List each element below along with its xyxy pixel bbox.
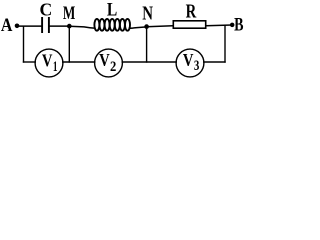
svg-text:C: C [40, 0, 53, 20]
svg-text:V: V [183, 50, 194, 71]
wire [146, 27, 148, 63]
wire [147, 26, 173, 27]
wire [68, 26, 70, 63]
wire [224, 25, 226, 62]
node A [1, 13, 19, 35]
svg-text:V: V [99, 49, 110, 70]
wire [122, 61, 178, 63]
node M [63, 2, 75, 29]
voltmeter V2 [95, 49, 123, 77]
svg-text:B: B [234, 13, 243, 35]
wire [17, 25, 42, 27]
wire [69, 26, 95, 28]
wire [23, 26, 25, 63]
svg-text:1: 1 [53, 58, 58, 75]
wire [203, 61, 226, 63]
wire [129, 27, 147, 28]
svg-text:V: V [42, 50, 53, 71]
node N [142, 2, 153, 29]
voltmeter V3 [176, 49, 204, 77]
node B [230, 13, 244, 35]
inductor L [94, 0, 130, 31]
svg-text:M: M [63, 2, 75, 24]
svg-text:R: R [186, 0, 197, 22]
svg-text:L: L [107, 0, 117, 20]
svg-text:2: 2 [110, 58, 116, 74]
wire [206, 24, 232, 27]
capacitor C [40, 0, 53, 33]
wire [50, 25, 70, 27]
resistor R [173, 0, 205, 28]
wire [62, 61, 96, 63]
svg-text:3: 3 [194, 56, 200, 73]
voltmeter V1 [35, 49, 63, 77]
svg-text:N: N [142, 2, 153, 25]
svg-text:A: A [1, 13, 13, 35]
wire [23, 61, 36, 63]
